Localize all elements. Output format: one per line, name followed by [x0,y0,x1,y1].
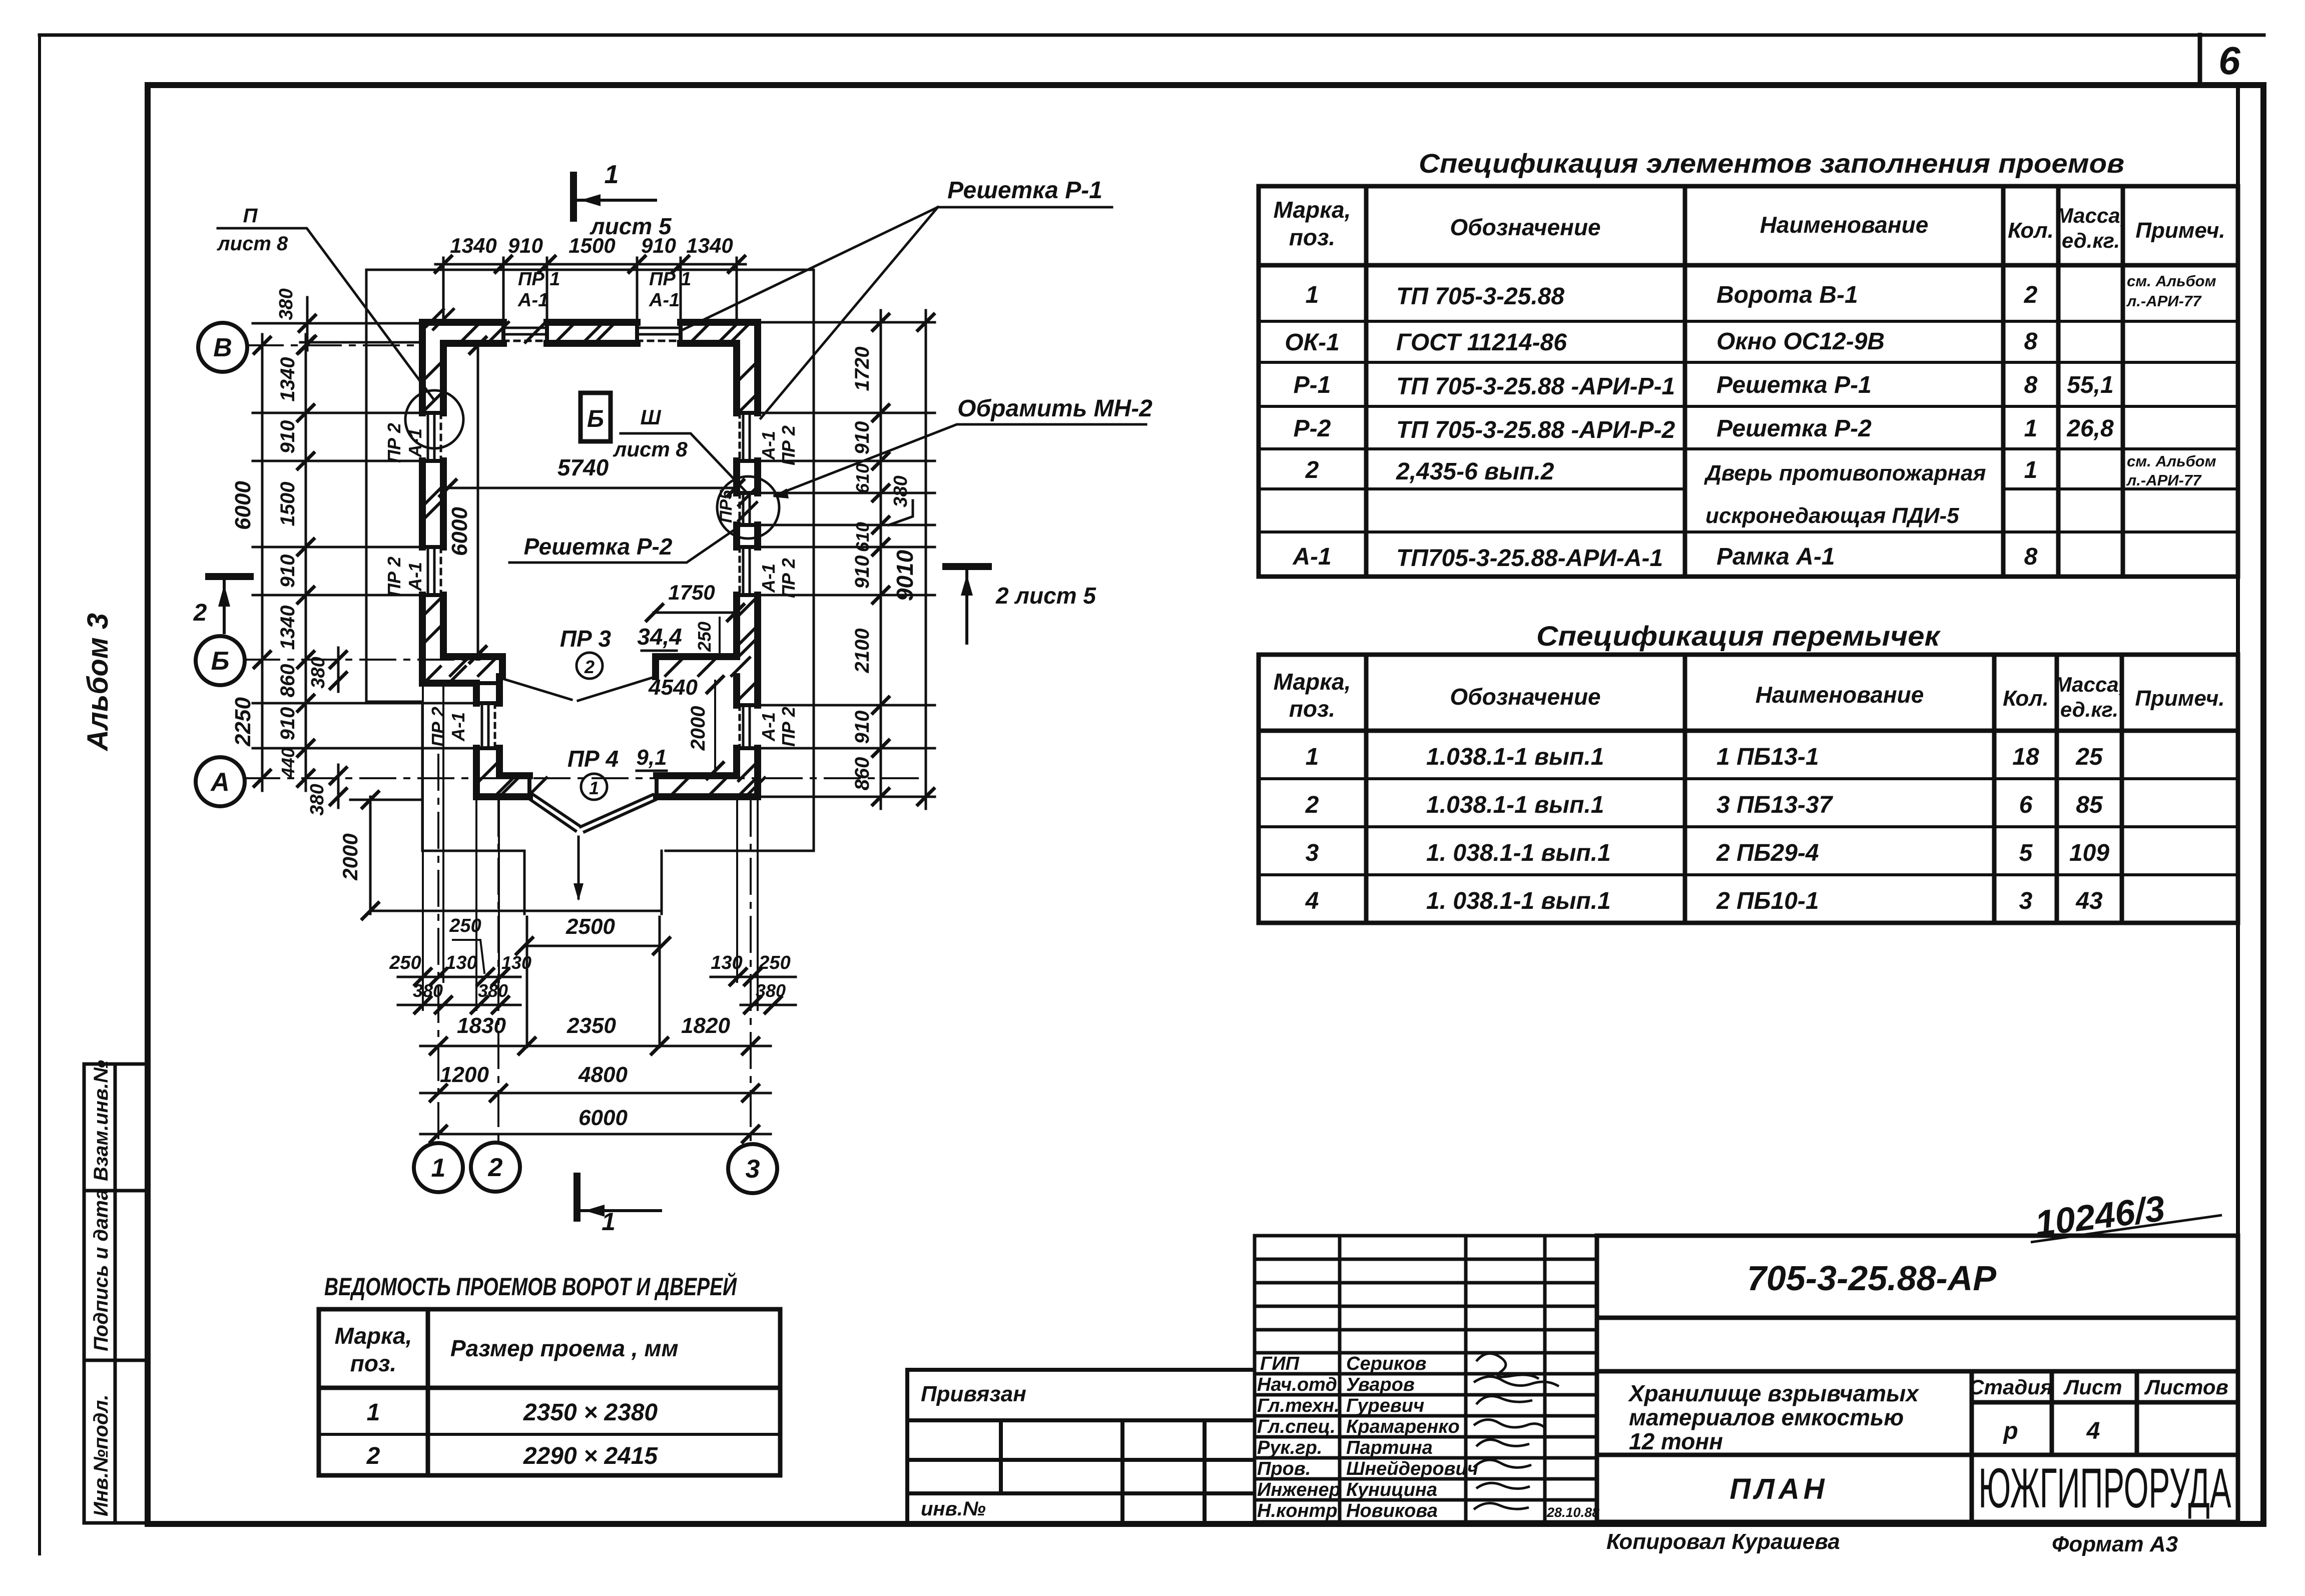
right wall inner [733,343,740,776]
svg-text:860: 860 [851,757,873,791]
svg-text:Сериков: Сериков [1346,1353,1426,1374]
title block outer [1597,1236,2238,1522]
svg-text:2500: 2500 [565,914,615,939]
svg-text:ЮЖГИПРОРУДА: ЮЖГИПРОРУДА [1979,1457,2231,1519]
svg-text:ПР 3: ПР 3 [560,626,612,652]
tambour south wall top face [499,772,737,779]
svg-text:Решетка Р-1: Решетка Р-1 [1716,372,1872,398]
dim 2500 [524,945,662,947]
svg-text:3 ПБ13-37: 3 ПБ13-37 [1716,792,1834,818]
svg-text:1: 1 [589,778,599,798]
svg-text:3: 3 [746,1155,760,1184]
svg-text:3: 3 [2019,888,2033,914]
svg-text:6: 6 [2019,792,2033,818]
interior dim 5740 [447,487,737,489]
svg-text:Пров.: Пров. [1257,1458,1311,1479]
small dims right cluster [711,976,796,978]
svg-text:Марка,: Марка, [335,1323,412,1349]
svg-text:Решетка Р-1: Решетка Р-1 [947,177,1102,204]
svg-text:Размер проема , мм: Размер проема , мм [450,1335,679,1361]
svg-text:р: р [2002,1418,2018,1444]
svg-text:1: 1 [2024,415,2038,442]
sheet outer thin border left [38,35,41,1554]
signature rows text [1257,1353,1599,1521]
tambour west wall inner [496,677,503,776]
svg-text:1720: 1720 [851,347,873,391]
small dims 250/130 left cluster [398,976,520,978]
svg-text:43: 43 [2075,888,2103,914]
table 1 rows [1285,272,2216,572]
svg-text:2000: 2000 [338,833,362,880]
svg-text:л.-АРИ-77: л.-АРИ-77 [2126,292,2202,310]
door PR4 swing double lines [530,795,656,832]
axis circle Б [196,636,245,685]
tambour west wall outer [473,683,480,797]
svg-text:1 ПБ13-1: 1 ПБ13-1 [1716,744,1819,770]
svg-text:860: 860 [277,664,299,698]
svg-text:Партина: Партина [1346,1437,1433,1458]
main block top wall inner [443,340,737,347]
svg-text:18: 18 [2012,744,2039,770]
axis circle В [198,323,247,372]
svg-text:1750: 1750 [668,581,715,604]
svg-text:380: 380 [756,980,786,1001]
svg-text:А-1: А-1 [517,290,548,311]
svg-text:3: 3 [1306,840,1319,866]
svg-text:ПР 2: ПР 2 [778,425,799,465]
right extension lines [760,321,935,324]
svg-text:Кол.: Кол. [2008,218,2054,243]
svg-text:4: 4 [2086,1418,2100,1444]
svg-text:ПР 2: ПР 2 [384,423,404,463]
svg-text:Обозначение: Обозначение [1450,684,1600,710]
main block top wall outer [422,319,758,326]
svg-text:ПЛАН: ПЛАН [1730,1473,1828,1505]
left wall window jambs [422,413,443,595]
left wall outer [419,322,426,683]
svg-text:Ш: Ш [640,405,661,429]
equipment mark B box [581,393,611,441]
svg-text:А: А [210,768,230,797]
svg-text:910: 910 [851,556,873,589]
right overall 9010 [925,310,927,809]
svg-text:2100: 2100 [851,629,873,674]
svg-text:1340: 1340 [686,234,733,257]
svg-text:1: 1 [1306,744,1319,770]
svg-text:6000: 6000 [231,481,255,530]
svg-text:380: 380 [890,475,911,507]
svg-text:Гл.спец.: Гл.спец. [1257,1416,1336,1437]
svg-text:4540: 4540 [648,675,698,700]
interior dim 1750 [654,612,737,614]
svg-text:85: 85 [2076,792,2103,818]
table 1 header texts [1274,197,2225,252]
svg-text:380: 380 [276,288,297,320]
left wall inner [440,343,447,657]
interior dim 2000 vertical [714,681,716,774]
svg-text:440: 440 [278,748,298,778]
svg-text:А-1: А-1 [448,712,468,742]
blind area outline [366,270,814,851]
svg-text:Марка,: Марка, [1274,669,1351,695]
svg-text:ед.кг.: ед.кг. [2062,229,2120,252]
axis circle 2 [471,1143,520,1192]
table 2 grid [1259,655,2238,923]
svg-text:ПР 2: ПР 2 [384,557,404,597]
svg-text:380: 380 [478,980,508,1001]
stadia list listov headers [1969,1375,2228,1444]
svg-text:искронедающая ПДИ-5: искронедающая ПДИ-5 [1705,503,1959,528]
svg-text:Марка,: Марка, [1274,197,1351,223]
svg-text:380: 380 [413,980,443,1001]
svg-text:Н.контр.: Н.контр. [1257,1500,1343,1521]
small dim 380 at B step [337,648,340,692]
svg-text:26,8: 26,8 [2066,415,2114,442]
door path edge left [523,851,526,914]
axis line 2 vertical [497,801,499,1142]
svg-text:Р-1: Р-1 [1294,372,1331,398]
svg-text:поз.: поз. [350,1350,396,1376]
svg-text:А-1: А-1 [405,562,425,592]
svg-text:Наименование: Наименование [1756,682,1924,708]
south wall of main room left piece [443,657,502,677]
svg-text:ТП 705-3-25.88 -АРИ-Р-1: ТП 705-3-25.88 -АРИ-Р-1 [1396,373,1675,400]
page number box divider [2198,35,2202,85]
svg-text:1340: 1340 [277,606,299,650]
right column line (tables / title block edge) [2236,85,2240,1524]
small dim 380 top-left [306,297,309,350]
svg-text:610: 610 [852,463,873,493]
svg-text:Решетка Р-2: Решетка Р-2 [1716,415,1872,442]
svg-text:910: 910 [277,555,299,588]
svg-text:Взам.инв.№: Взам.инв.№ [90,1060,112,1181]
chain 1200/4800 [420,1092,771,1095]
svg-text:610: 610 [852,522,873,552]
svg-text:Р-2: Р-2 [1294,415,1331,442]
svg-text:9,1: 9,1 [636,745,667,770]
dim 2000 left bottom [369,797,372,914]
svg-text:2 ПБ10-1: 2 ПБ10-1 [1716,888,1819,914]
svg-text:поз.: поз. [1289,696,1335,722]
svg-text:1.038.1-1 вып.1: 1.038.1-1 вып.1 [1426,744,1604,770]
signature table [1255,1236,1597,1522]
svg-text:А-1: А-1 [758,431,779,460]
svg-text:л.-АРИ-77: л.-АРИ-77 [2126,471,2202,489]
svg-text:2: 2 [1305,457,1319,483]
svg-text:1500: 1500 [277,482,299,526]
svg-text:2350 × 2380: 2350 × 2380 [523,1399,658,1426]
svg-text:лист 8: лист 8 [613,437,688,461]
south wall of main room right piece [656,657,737,677]
svg-text:1340: 1340 [277,357,299,402]
top extension lines [442,258,445,321]
svg-text:1820: 1820 [681,1013,730,1038]
svg-text:ПР 1: ПР 1 [649,269,691,290]
svg-text:2350: 2350 [566,1013,616,1038]
axis circle А [196,757,245,806]
svg-text:1: 1 [1306,282,1319,308]
svg-text:2: 2 [2024,282,2038,308]
svg-text:910: 910 [277,420,299,454]
svg-text:ед.кг.: ед.кг. [2060,698,2118,721]
svg-text:В: В [213,333,232,362]
left wall windows glazing [428,413,434,461]
svg-text:Б: Б [587,406,604,432]
tambour south wall outer [476,793,758,800]
svg-text:Спецификация элементов запол: Спецификация элементов заполнения проемо… [1419,149,2124,179]
handwritten number 10246/3 [2033,1189,2167,1244]
vedomost grid [319,1309,780,1475]
section mark 2 right [946,563,988,570]
svg-text:Привязан: Привязан [921,1382,1026,1406]
exit arrow [578,837,580,898]
top windows glazing [503,328,547,334]
svg-text:250: 250 [758,952,790,973]
svg-text:ОК-1: ОК-1 [1285,329,1340,356]
left extension lines [253,412,423,414]
svg-text:А-1: А-1 [1292,544,1331,570]
svg-text:2: 2 [193,600,207,626]
svg-text:2000: 2000 [687,706,709,751]
svg-text:705-3-25.88-АР: 705-3-25.88-АР [1747,1259,1996,1298]
svg-text:см. Альбом: см. Альбом [2127,452,2216,470]
svg-text:Альбом 3: Альбом 3 [82,613,114,752]
right wall outer [754,322,761,797]
svg-text:2: 2 [488,1153,503,1182]
tambour south door jambs [529,776,657,797]
svg-text:ПР 1: ПР 1 [518,269,560,290]
svg-text:Окно ОС12-9В: Окно ОС12-9В [1716,328,1885,355]
section mark 1 bottom [573,1176,581,1218]
svg-text:Нач.отд.: Нач.отд. [1257,1374,1342,1395]
chain 1830/2350/1820 [420,1045,771,1047]
right wall windows glazing [743,413,750,461]
svg-text:ТП705-3-25.88-АРИ-А-1: ТП705-3-25.88-АРИ-А-1 [1396,545,1663,572]
svg-text:2,435-6 вып.2: 2,435-6 вып.2 [1396,458,1554,485]
top dimension chain [435,263,746,266]
svg-text:1: 1 [605,160,619,189]
svg-text:109: 109 [2069,840,2109,866]
svg-text:Ворота В-1: Ворота В-1 [1716,282,1858,308]
south-west step wall [422,680,476,687]
extension verticals bottom [527,917,660,1047]
svg-text:Шнейдерович: Шнейдерович [1346,1458,1478,1479]
right wall opening jambs [737,413,758,748]
svg-text:55,1: 55,1 [2067,372,2113,398]
leader 250 [453,940,484,973]
svg-text:1830: 1830 [457,1013,506,1038]
section mark 1 top [570,175,577,218]
svg-text:28.10.88: 28.10.88 [1546,1505,1599,1520]
table 1 grid [1259,186,2238,577]
svg-text:250: 250 [694,622,715,652]
svg-text:ВЕДОМОСТЬ ПРОЕМОВ ВОРОТ И ДВЕР: ВЕДОМОСТЬ ПРОЕМОВ ВОРОТ И ДВЕРЕЙ [324,1272,737,1301]
svg-text:Обрамить МН-2: Обрамить МН-2 [957,395,1152,422]
left chain segments [305,334,307,791]
left margin stamp boxes [84,1064,148,1523]
svg-text:Листов: Листов [2144,1375,2228,1399]
svg-text:1: 1 [431,1154,446,1183]
svg-text:Гл.техн.: Гл.техн. [1257,1395,1340,1416]
interior dim 250 vertical [719,618,721,659]
svg-text:Подпись и дата: Подпись и дата [90,1189,112,1351]
svg-text:П: П [243,205,258,227]
svg-text:4: 4 [1305,888,1319,914]
axis line 3 vertical [750,801,752,1143]
svg-text:Кол.: Кол. [2003,686,2049,711]
svg-text:380: 380 [307,784,328,815]
svg-text:Рамка А-1: Рамка А-1 [1716,544,1835,570]
svg-text:2 лист 5: 2 лист 5 [995,583,1096,609]
svg-text:Инженер: Инженер [1257,1479,1341,1500]
door path edge right [661,851,663,914]
axis circle 3 [728,1144,777,1193]
svg-text:ТП 705-3-25.88 -АРИ-Р-2: ТП 705-3-25.88 -АРИ-Р-2 [1396,417,1675,443]
svg-text:Гуревич: Гуревич [1346,1395,1424,1416]
svg-text:1340: 1340 [450,234,496,257]
detail circle left window [405,390,463,448]
svg-text:2290 × 2415: 2290 × 2415 [523,1443,659,1469]
sheet outer thin border top [40,34,2264,37]
svg-text:ГИП: ГИП [1260,1353,1300,1374]
svg-text:6: 6 [2218,39,2240,83]
signatures squiggles [1474,1353,1559,1509]
svg-text:ТП 705-3-25.88: ТП 705-3-25.88 [1396,283,1564,310]
svg-text:Масса,: Масса, [2056,204,2126,227]
svg-text:910: 910 [851,711,873,744]
svg-text:130: 130 [445,952,477,973]
svg-text:Новикова: Новикова [1346,1500,1438,1521]
door PR3 swing [502,677,656,701]
svg-text:2: 2 [584,657,595,677]
object name [1627,1380,1920,1454]
svg-text:А-1: А-1 [649,290,680,311]
svg-text:Масса,: Масса, [2054,673,2125,696]
svg-text:А-1: А-1 [758,712,779,742]
small dim 380 bottom left [337,765,340,808]
top wall window jambs [503,322,681,343]
tambour west window glazing [482,703,488,748]
svg-text:поз.: поз. [1289,224,1335,250]
tambour west wall jambs [476,677,502,748]
svg-text:Лист: Лист [2063,1375,2122,1399]
svg-text:6000: 6000 [579,1106,628,1130]
svg-text:2 ПБ29-4: 2 ПБ29-4 [1716,840,1819,866]
svg-text:1: 1 [2024,457,2038,483]
svg-text:8: 8 [2024,544,2038,570]
svg-text:12 тонн: 12 тонн [1629,1428,1723,1454]
svg-text:1: 1 [602,1208,616,1236]
right chain [880,310,882,809]
chain 6000 bottom [420,1133,771,1136]
svg-text:25: 25 [2075,744,2103,770]
svg-text:8: 8 [2024,328,2038,355]
svg-text:380: 380 [308,657,329,688]
svg-text:2250: 2250 [231,697,255,747]
svg-text:910: 910 [508,234,543,257]
svg-text:910: 910 [277,707,299,741]
svg-text:1.038.1-1 вып.1: 1.038.1-1 вып.1 [1426,792,1604,818]
svg-text:Б: Б [211,647,230,676]
privyazan box [907,1370,1255,1522]
svg-text:Наименование: Наименование [1760,212,1929,238]
svg-text:Инв.№подл.: Инв.№подл. [90,1394,112,1516]
svg-text:ПР 2: ПР 2 [778,558,799,598]
detail circle PR5 [717,476,779,539]
svg-text:Рук.гр.: Рук.гр. [1257,1437,1322,1458]
table 2 header texts [1274,669,2225,722]
svg-text:Уваров: Уваров [1346,1374,1415,1395]
svg-text:5: 5 [2019,840,2033,866]
svg-text:250: 250 [389,952,421,973]
svg-text:Обозначение: Обозначение [1450,214,1600,240]
table 2 rows [1305,744,2110,914]
svg-text:ПР 2: ПР 2 [428,707,448,747]
axis line V [248,344,423,346]
svg-text:Хранилище взрывчатых: Хранилище взрывчатых [1627,1380,1920,1406]
svg-text:Копировал Курашева: Копировал Курашева [1606,1529,1840,1554]
wall hatching [423,309,765,796]
svg-text:6000: 6000 [447,507,472,556]
svg-text:лист 5: лист 5 [590,213,672,239]
svg-text:см. Альбом: см. Альбом [2127,272,2216,290]
svg-text:5740: 5740 [557,454,609,480]
svg-text:34,4: 34,4 [637,624,682,650]
svg-text:А-1: А-1 [758,564,779,593]
svg-text:1. 038.1-1 вып.1: 1. 038.1-1 вып.1 [1426,888,1611,914]
svg-text:2: 2 [1305,792,1319,818]
svg-text:лист 8: лист 8 [217,233,288,255]
svg-text:910: 910 [851,421,873,455]
svg-text:Крамаренко: Крамаренко [1346,1416,1460,1437]
svg-text:Формат А3: Формат А3 [2052,1532,2178,1556]
axis line A [244,777,926,779]
svg-text:ГОСТ 11214-86: ГОСТ 11214-86 [1396,329,1567,356]
svg-text:1200: 1200 [440,1062,489,1087]
interior dim 6000 vertical [477,344,479,656]
axis circle 1 [414,1143,463,1192]
svg-text:материалов емкостью: материалов емкостью [1629,1404,1904,1430]
svg-text:инв.№: инв.№ [921,1498,986,1520]
svg-text:1. 038.1-1 вып.1: 1. 038.1-1 вып.1 [1426,840,1611,866]
svg-text:1: 1 [367,1399,380,1426]
svg-text:9010: 9010 [892,550,918,601]
svg-text:Решетка Р-2: Решетка Р-2 [524,534,673,560]
svg-text:Примеч.: Примеч. [2135,218,2225,243]
svg-text:Дверь противопожарная: Дверь противопожарная [1703,461,1986,485]
left chain 6000/2250 [261,334,264,791]
section mark 2 left [209,573,250,580]
svg-text:Спецификация перемычек: Спецификация перемычек [1536,620,1941,652]
svg-text:Стадия: Стадия [1969,1375,2052,1399]
svg-text:Куницина: Куницина [1346,1479,1437,1500]
axis line 1 vertical [437,755,439,1142]
svg-text:ПР 2: ПР 2 [778,707,799,747]
svg-text:8: 8 [2024,372,2038,398]
axis line B(mid) [244,659,479,661]
svg-text:ПР 4: ПР 4 [567,746,619,772]
svg-text:2: 2 [366,1443,380,1469]
svg-text:4800: 4800 [578,1062,628,1087]
svg-text:Примеч.: Примеч. [2135,686,2224,711]
